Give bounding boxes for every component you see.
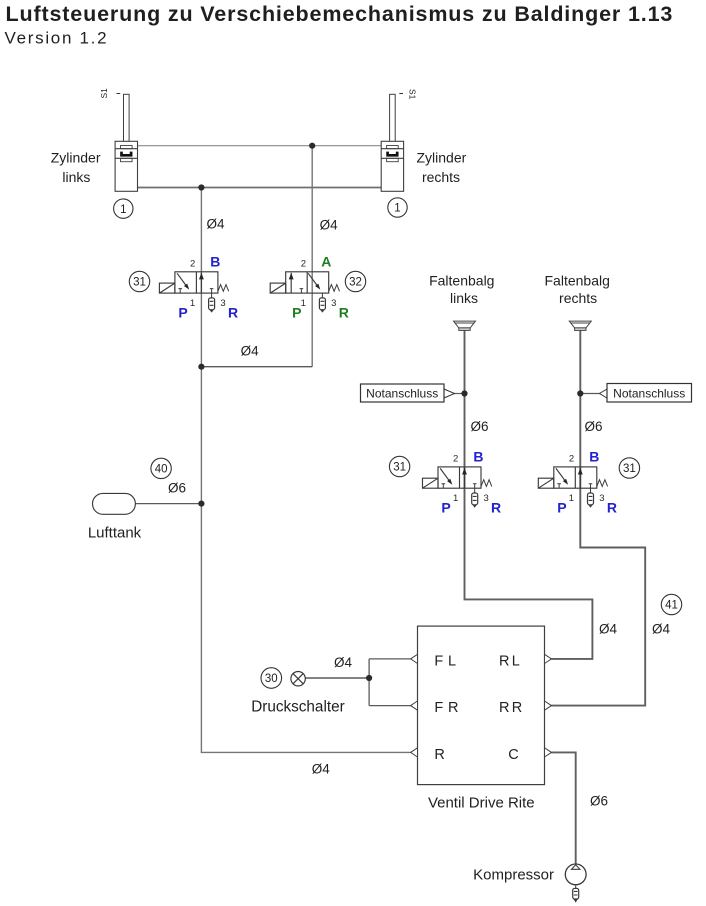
ref circle 32 xyxy=(345,271,365,291)
svg-text:B: B xyxy=(589,448,599,464)
druckschalter symbol (circle with X) xyxy=(291,672,305,686)
svg-text:Kompressor: Kompressor xyxy=(473,867,554,884)
svg-text:31: 31 xyxy=(393,462,406,474)
svg-text:links: links xyxy=(62,169,90,185)
node: notanschluss rechts junction xyxy=(577,390,583,396)
svg-text:32: 32 xyxy=(349,277,362,289)
svg-text:Faltenbalg: Faltenbalg xyxy=(545,272,610,288)
svg-text:B: B xyxy=(473,448,483,464)
svg-text:2: 2 xyxy=(453,453,458,464)
svg-text:P: P xyxy=(292,305,301,321)
ref circle 40 xyxy=(151,458,171,478)
svg-text:rechts: rechts xyxy=(559,290,597,306)
svg-text:Ø4: Ø4 xyxy=(320,218,339,233)
svg-text:P: P xyxy=(178,305,187,321)
svg-text:Ø4: Ø4 xyxy=(334,655,353,670)
svg-text:1: 1 xyxy=(394,203,400,215)
svg-text:links: links xyxy=(450,290,478,306)
svg-text:31: 31 xyxy=(623,463,636,475)
funnel Faltenbalg rechts xyxy=(569,321,591,330)
ref circle 41 xyxy=(661,594,681,614)
wire: druckschalter link xyxy=(305,677,369,679)
svg-text:2: 2 xyxy=(569,453,574,464)
ref circle 31 lower-left xyxy=(389,456,409,476)
svg-text:R: R xyxy=(607,500,617,516)
node: notanschluss links junction xyxy=(461,390,467,396)
notanschluss rechts box xyxy=(600,384,692,403)
wire: top rail between cylinders xyxy=(138,145,382,147)
wire: druckschalter branch vertical xyxy=(368,659,370,706)
svg-text:Ø6: Ø6 xyxy=(471,419,489,434)
wire: main left run from bottom rail to R port xyxy=(201,188,410,753)
svg-text:Version 1.2: Version 1.2 xyxy=(5,29,109,48)
svg-text:rechts: rechts xyxy=(422,169,460,185)
wire: C line to compressor xyxy=(552,752,576,864)
svg-text:Zylinder: Zylinder xyxy=(417,150,467,166)
svg-text:C: C xyxy=(508,747,518,763)
svg-text:Luftsteuerung zu Verschiebemec: Luftsteuerung zu Verschiebemechanismus z… xyxy=(6,2,674,26)
svg-text:R: R xyxy=(499,700,509,716)
svg-text:R: R xyxy=(491,500,501,516)
svg-text:P: P xyxy=(441,500,450,516)
valve U31a (upper left) xyxy=(159,272,228,313)
svg-text:Ø6: Ø6 xyxy=(168,481,186,496)
wire: valve 32 drop from top rail xyxy=(311,146,313,367)
wire: faltenbalg rechts run to RR xyxy=(552,330,646,705)
svg-text:Ø4: Ø4 xyxy=(207,216,226,231)
svg-text:3: 3 xyxy=(483,493,488,504)
svg-text:R: R xyxy=(339,305,349,321)
cylinder: Zylinder rechts xyxy=(381,94,403,191)
funnel Faltenbalg links xyxy=(454,321,476,330)
svg-text:Ø4: Ø4 xyxy=(312,762,331,777)
svg-text:Faltenbalg: Faltenbalg xyxy=(429,272,494,288)
svg-text:Zylinder: Zylinder xyxy=(51,150,101,166)
svg-text:R: R xyxy=(434,747,444,763)
svg-text:Ø6: Ø6 xyxy=(585,419,603,434)
svg-text:R: R xyxy=(499,654,509,670)
node: top rail / valve32 drop xyxy=(309,143,315,149)
svg-text:Ø6: Ø6 xyxy=(590,794,608,809)
svg-text:2: 2 xyxy=(301,258,306,269)
svg-text:R: R xyxy=(448,700,458,716)
wire: lufttank link xyxy=(135,503,201,505)
svg-text:Ø4: Ø4 xyxy=(599,622,618,637)
valve block Ventil Drive Rite xyxy=(418,626,545,785)
kompressor symbol xyxy=(565,864,586,903)
svg-text:L: L xyxy=(448,654,456,670)
port arrow RR xyxy=(545,701,552,710)
svg-text:3: 3 xyxy=(331,298,336,309)
svg-text:1: 1 xyxy=(453,493,458,504)
wire: branch to FR xyxy=(369,705,411,707)
svg-text:Notanschluss: Notanschluss xyxy=(366,387,438,401)
svg-text:F: F xyxy=(434,654,443,670)
svg-text:Ø4: Ø4 xyxy=(652,622,671,637)
svg-text:R: R xyxy=(228,305,238,321)
wire: bottom rail between cylinders xyxy=(138,187,382,189)
svg-text:L: L xyxy=(512,654,520,670)
druckschalter ref circle 30 xyxy=(261,668,282,689)
port arrow FL xyxy=(411,654,418,663)
svg-text:3: 3 xyxy=(220,298,225,309)
svg-text:1: 1 xyxy=(569,493,574,504)
svg-text:S1: S1 xyxy=(408,89,418,100)
node: lufttank junction xyxy=(198,501,204,507)
ref circle 1 right xyxy=(388,198,407,217)
valve U31c (lower right) xyxy=(538,467,607,508)
svg-text:F: F xyxy=(434,700,443,716)
svg-text:3: 3 xyxy=(599,493,604,504)
wire: branch to FL xyxy=(369,658,411,660)
svg-text:1: 1 xyxy=(120,204,126,216)
svg-text:30: 30 xyxy=(265,673,278,685)
valve U32 (upper right, mirrored internals) xyxy=(270,272,339,313)
wire: notanschluss links link xyxy=(455,393,465,395)
port arrow RL xyxy=(545,654,552,663)
cylinder: Zylinder links xyxy=(115,94,137,191)
wire: junction link below upper valves xyxy=(201,366,312,368)
node: druckschalter junction xyxy=(366,675,372,681)
svg-text:31: 31 xyxy=(133,277,146,289)
svg-text:R: R xyxy=(512,700,522,716)
svg-text:Ø4: Ø4 xyxy=(241,344,260,359)
svg-text:P: P xyxy=(557,500,566,516)
port arrow R xyxy=(411,748,418,757)
wire: faltenbalg links run to RL xyxy=(465,330,593,659)
svg-text:Ventil Drive Rite: Ventil Drive Rite xyxy=(428,795,535,812)
port arrow FR xyxy=(411,701,418,710)
ref circle 1 left xyxy=(114,199,133,218)
wire: notanschluss rechts link xyxy=(580,393,599,395)
svg-text:A: A xyxy=(321,253,331,269)
svg-text:1: 1 xyxy=(190,298,195,309)
svg-text:2: 2 xyxy=(190,258,195,269)
svg-text:B: B xyxy=(210,253,220,269)
port arrow C xyxy=(545,748,552,757)
svg-text:Notanschluss: Notanschluss xyxy=(613,387,685,401)
ref circle 31 upper xyxy=(129,271,149,291)
valve U31b (lower left) xyxy=(423,467,492,508)
svg-text:41: 41 xyxy=(665,600,678,612)
svg-text:S1: S1 xyxy=(99,88,109,99)
svg-text:40: 40 xyxy=(155,463,168,475)
node: junction link xyxy=(198,364,204,370)
svg-text:Lufttank: Lufttank xyxy=(88,525,142,542)
notanschluss links box xyxy=(361,384,455,402)
ref circle 31 lower-right xyxy=(619,458,639,478)
svg-text:Druckschalter: Druckschalter xyxy=(251,698,345,715)
node: bottom rail / main run xyxy=(198,184,204,190)
lufttank symbol xyxy=(93,493,136,514)
